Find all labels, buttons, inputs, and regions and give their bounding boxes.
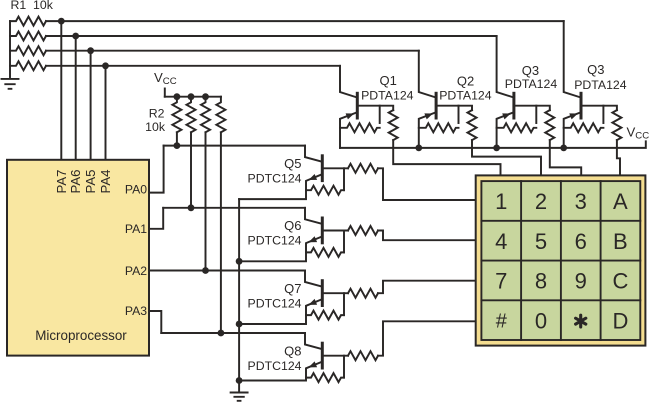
resistor Q5 internal series base resistor xyxy=(348,164,378,173)
transistor Q7 emitter with arrow xyxy=(239,299,322,324)
svg-text:PA7: PA7 xyxy=(54,170,69,194)
resistor Q1 internal base-emitter resistor xyxy=(340,123,380,132)
svg-text:PDTA124: PDTA124 xyxy=(439,88,492,102)
resistor R1-a 10k xyxy=(10,17,46,26)
keypad outer frame xyxy=(476,175,646,345)
resistor Q8 internal series base resistor xyxy=(348,351,378,360)
transistor Q6 emitter with arrow xyxy=(239,236,322,261)
wire Q5 collector lead xyxy=(305,146,321,162)
wire Q2 collector from sense bus xyxy=(419,51,435,97)
wire R2 top bus xyxy=(165,96,221,98)
resistor R2-a 10k xyxy=(172,97,181,133)
wire Q3 base resistor to keypad column xyxy=(550,140,581,175)
wire Q6 base lead xyxy=(322,230,348,232)
svg-text:PA6: PA6 xyxy=(68,170,83,194)
svg-text:9: 9 xyxy=(575,269,587,294)
keypad key asterisk xyxy=(576,315,586,327)
svg-text:PA2: PA2 xyxy=(125,264,147,278)
wire emitter ground rail vertical xyxy=(238,199,240,392)
resistor Q7 internal base-emitter resistor xyxy=(306,311,344,320)
svg-text:Q1: Q1 xyxy=(380,73,397,88)
wire Vcc rail for Q1-Q4 emitters xyxy=(340,141,646,148)
resistor R1-b 10k xyxy=(10,32,46,41)
wire Q7 base-emitter resistor tap xyxy=(343,293,345,315)
wire R2-a bottom lead xyxy=(176,132,178,145)
wire PA1 pin to node row1 xyxy=(149,208,163,229)
wire Q2 base lead xyxy=(436,106,472,110)
wire vertical to microprocessor pin PA6 xyxy=(75,36,77,160)
wire node PA0 row to Q5 collector xyxy=(164,145,305,147)
resistor Q3 internal series base resistor xyxy=(545,110,554,140)
wire Q6 collector lead xyxy=(305,208,321,224)
svg-text:C: C xyxy=(612,269,628,294)
svg-text:Q8: Q8 xyxy=(284,343,301,358)
wire Q2 base resistor to keypad column xyxy=(472,140,541,175)
wire Q1 base-emitter resistor tap xyxy=(379,106,381,123)
junction node R2-a top xyxy=(174,93,181,100)
transistor Q3 emitter with arrow xyxy=(497,112,514,148)
wire node PA1 row to Q6 collector xyxy=(163,207,305,209)
svg-text:A: A xyxy=(613,189,628,214)
keypad inner grid xyxy=(481,181,640,340)
transistor Q5 emitter with arrow xyxy=(239,174,322,199)
svg-text:3: 3 xyxy=(575,189,587,214)
resistor Q7 internal series base resistor xyxy=(348,289,378,298)
junction node R2-b bottom xyxy=(188,204,195,211)
ground (bottom center) xyxy=(231,393,248,401)
wire Q6 base-emitter resistor tap xyxy=(343,231,345,253)
svg-text:Q2: Q2 xyxy=(457,73,474,88)
wire column-sense bus row 2 (y=36.0) xyxy=(46,35,497,37)
svg-text:D: D xyxy=(612,308,628,333)
transistor Q7 base bar xyxy=(321,281,324,306)
wire Q8 base-emitter resistor tap xyxy=(343,356,345,378)
svg-text:10k: 10k xyxy=(145,120,166,134)
junction node bus row 3 xyxy=(87,47,94,54)
junction node emitter on Vcc rail xyxy=(560,145,567,152)
resistor Q5 internal base-emitter resistor xyxy=(306,186,344,195)
wire PA3 pin to node row3 xyxy=(149,311,161,333)
svg-text:0: 0 xyxy=(535,308,547,333)
wire Q3 base-emitter resistor tap xyxy=(535,106,537,123)
svg-text:6: 6 xyxy=(575,229,587,254)
resistor Q6 internal series base resistor xyxy=(348,226,378,235)
wire PA0 pin to node row0 xyxy=(149,146,164,193)
wire Q3 (4th) base lead xyxy=(581,106,617,110)
wire column-sense bus row 1 (y=21.1) xyxy=(46,20,564,22)
wire Q8 base resistor to keypad row xyxy=(378,321,476,355)
svg-text:PA0: PA0 xyxy=(125,183,147,197)
wire Q3 base lead xyxy=(514,106,550,110)
wire vertical to microprocessor pin PA7 xyxy=(60,21,62,160)
transistor Q8 emitter with arrow xyxy=(239,362,322,381)
wire R1 left common vertical xyxy=(9,21,11,77)
junction node R2-a bottom xyxy=(174,142,181,149)
transistor Q6 base bar xyxy=(321,218,324,243)
ground (left, below R1) xyxy=(2,79,19,89)
resistor R2-d 10k xyxy=(216,97,225,133)
svg-text:PDTC124: PDTC124 xyxy=(248,359,302,373)
junction node bus row 2 xyxy=(72,33,79,40)
svg-text:Q6: Q6 xyxy=(284,218,301,233)
resistor Q3 internal base-emitter resistor xyxy=(497,123,537,132)
svg-text:PDTA124: PDTA124 xyxy=(574,78,627,92)
transistor Q8 base bar xyxy=(321,343,324,368)
svg-text:5: 5 xyxy=(535,229,547,254)
svg-text:PDTA124: PDTA124 xyxy=(361,88,414,102)
svg-text:B: B xyxy=(613,229,628,254)
wire Q7 base lead xyxy=(322,292,348,294)
junction node R2-d bottom xyxy=(218,330,225,337)
svg-text:Q3: Q3 xyxy=(522,63,539,78)
resistor Q2 internal base-emitter resistor xyxy=(419,123,459,132)
junction node R2-c top xyxy=(202,93,209,100)
wire node PA2 row to Q7 collector xyxy=(149,270,305,272)
svg-text:Q7: Q7 xyxy=(284,281,301,296)
wire Q1 base resistor to keypad column xyxy=(393,140,500,175)
wire Q3 (4th) base resistor to keypad column xyxy=(617,140,620,175)
svg-text:PA5: PA5 xyxy=(83,170,98,194)
wire column-sense bus row 3 (y=50.7) xyxy=(46,50,419,52)
svg-text:#: # xyxy=(496,311,508,333)
wire Q3 (4th) collector from sense bus xyxy=(564,21,580,97)
svg-text:PDTC124: PDTC124 xyxy=(248,234,302,248)
wire R2-c bottom lead xyxy=(205,132,207,270)
svg-text:Q5: Q5 xyxy=(284,156,301,171)
svg-text:VCC: VCC xyxy=(627,124,650,141)
transistor Q2 base bar xyxy=(435,93,438,118)
wire Q5 base lead xyxy=(322,167,348,169)
microprocessor U1 box xyxy=(7,160,149,356)
svg-text:R1 10k: R1 10k xyxy=(11,0,54,12)
transistor Q3 base bar xyxy=(512,93,515,118)
wire Q8 base lead xyxy=(322,355,348,357)
wire Q7 base resistor to keypad row xyxy=(378,281,476,294)
wire vertical to microprocessor pin PA4 xyxy=(105,66,107,160)
svg-text:PA4: PA4 xyxy=(98,170,113,194)
svg-text:8: 8 xyxy=(535,269,547,294)
resistor Q2 internal series base resistor xyxy=(468,110,477,140)
wire R2-b bottom lead xyxy=(190,132,192,208)
transistor Q1 base bar xyxy=(356,93,359,118)
junction node Q6 emitter xyxy=(236,258,243,265)
wire Q1 collector from sense bus xyxy=(340,66,356,97)
resistor R2-b 10k xyxy=(187,97,196,133)
svg-text:4: 4 xyxy=(495,229,507,254)
resistor R2-c 10k xyxy=(201,97,210,133)
wire Q3 collector from sense bus xyxy=(497,36,513,97)
wire column-sense bus row 4 (y=65.8) xyxy=(46,65,340,67)
svg-text:PA1: PA1 xyxy=(125,222,147,236)
wire Q3 (4th) base-emitter resistor tap xyxy=(602,106,604,123)
wire R2-d bottom lead xyxy=(220,132,222,333)
svg-text:Microprocessor: Microprocessor xyxy=(35,328,127,343)
junction node Q8 emitter xyxy=(236,377,243,384)
transistor Q3 (4th) base bar xyxy=(580,93,583,118)
wire node PA3 row to Q8 collector xyxy=(161,332,305,334)
svg-text:PA3: PA3 xyxy=(125,304,147,318)
svg-text:R2: R2 xyxy=(149,107,165,121)
junction node emitter on Vcc rail xyxy=(415,145,422,152)
resistor Q3 (4th) internal series base resistor xyxy=(612,110,621,140)
svg-text:PDTC124: PDTC124 xyxy=(248,296,302,310)
junction node R2-b top xyxy=(188,93,195,100)
svg-text:7: 7 xyxy=(495,269,507,294)
junction node bus row 4 xyxy=(102,62,109,69)
wire Q2 base-emitter resistor tap xyxy=(458,106,460,123)
wire Q5 base-emitter resistor tap xyxy=(343,168,345,190)
resistor R1-c 10k xyxy=(10,46,46,55)
wire vertical to microprocessor pin PA5 xyxy=(90,51,92,160)
wire Q5 base resistor to keypad row xyxy=(378,168,476,200)
svg-text:2: 2 xyxy=(535,189,547,214)
junction node R2-c bottom xyxy=(202,267,209,274)
resistor Q3 (4th) internal base-emitter resistor xyxy=(564,123,604,132)
wire Q6 base resistor to keypad row xyxy=(378,231,476,241)
svg-text:1: 1 xyxy=(495,189,507,214)
junction node emitter on Vcc rail xyxy=(493,145,500,152)
resistor R1-d 10k xyxy=(10,61,46,70)
transistor Q5 base bar xyxy=(321,156,324,181)
wire Q7 collector lead xyxy=(305,271,321,287)
junction node Q7 emitter xyxy=(236,321,243,328)
svg-text:VCC: VCC xyxy=(154,70,177,87)
transistor Q2 emitter with arrow xyxy=(419,112,436,148)
svg-text:Q3: Q3 xyxy=(587,62,604,77)
transistor Q3 (4th) emitter with arrow xyxy=(564,112,581,148)
transistor Q1 emitter with arrow xyxy=(340,112,357,148)
svg-text:PDTC124: PDTC124 xyxy=(248,172,302,186)
junction node bus row 1 xyxy=(58,18,65,25)
resistor Q6 internal base-emitter resistor xyxy=(306,248,344,257)
resistor Q8 internal base-emitter resistor xyxy=(306,373,344,382)
wire Q8 collector lead xyxy=(305,333,321,349)
svg-text:PDTA124: PDTA124 xyxy=(505,77,558,91)
wire Q1 base lead xyxy=(357,106,393,110)
resistor Q1 internal series base resistor xyxy=(389,110,398,140)
